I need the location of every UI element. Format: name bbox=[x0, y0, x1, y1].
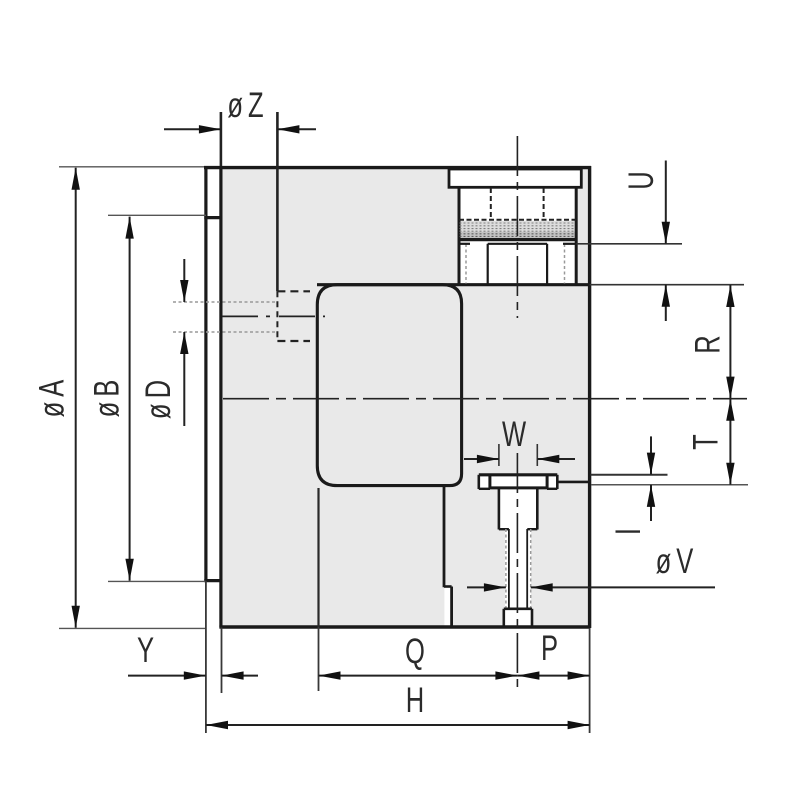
svg-text:Q: Q bbox=[405, 631, 430, 671]
svg-text:øA: øA bbox=[31, 375, 71, 418]
svg-text:W: W bbox=[502, 414, 531, 454]
svg-text:øD: øD bbox=[138, 375, 178, 419]
svg-text:øZ: øZ bbox=[227, 85, 268, 125]
svg-text:U: U bbox=[621, 166, 661, 189]
svg-text:I: I bbox=[608, 523, 648, 535]
svg-text:øV: øV bbox=[656, 541, 699, 581]
svg-text:øB: øB bbox=[86, 375, 126, 418]
svg-text:R: R bbox=[687, 330, 727, 353]
svg-text:H: H bbox=[406, 680, 429, 720]
svg-text:T: T bbox=[685, 429, 725, 450]
svg-text:Y: Y bbox=[137, 630, 159, 670]
svg-text:P: P bbox=[541, 628, 563, 668]
